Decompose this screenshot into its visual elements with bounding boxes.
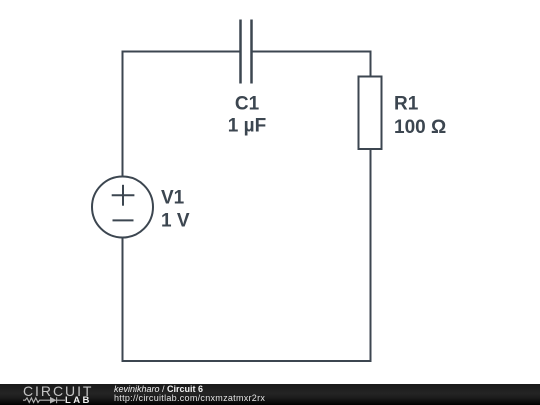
footer bar	[0, 384, 540, 405]
V1 plus sign	[112, 185, 135, 206]
wire top-left (source top to capacitor left plate)	[123, 51, 240, 53]
wire right-upper (top rail down to R1 top)	[370, 52, 372, 77]
logo LAB word	[65, 397, 92, 404]
svg-text:R1: R1	[394, 94, 419, 115]
footer line 2: url	[114, 394, 265, 403]
wire right-lower (R1 bottom down to bottom rail)	[370, 149, 372, 361]
svg-text:100 Ω: 100 Ω	[394, 117, 446, 138]
wire left-lower (V1 bottom down to bottom rail)	[122, 238, 124, 362]
wire bottom rail	[123, 360, 371, 362]
footer line 1: author / circuit name	[114, 385, 203, 394]
logo zigzag resistor and diode	[23, 395, 65, 405]
logo CIRCUIT word	[23, 386, 93, 397]
wire left-upper (top rail down to V1 top)	[122, 52, 124, 177]
V1 minus sign	[113, 219, 134, 221]
svg-text:C1: C1	[235, 94, 260, 115]
voltage source V1 circle	[92, 177, 153, 238]
svg-text:V1: V1	[161, 188, 185, 209]
capacitor C1 plates	[241, 20, 252, 84]
wire top-right (capacitor right plate to resistor top)	[253, 51, 371, 53]
svg-text:1 V: 1 V	[161, 211, 190, 232]
svg-text:1 µF: 1 µF	[228, 116, 266, 137]
resistor R1 box	[359, 77, 382, 150]
